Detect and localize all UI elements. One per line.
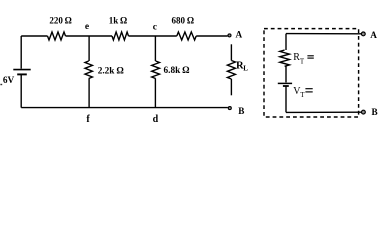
svg-text:680 Ω: 680 Ω [172,16,195,26]
svg-text:2.2k Ω: 2.2k Ω [98,67,125,77]
svg-text:T: T [300,58,305,66]
svg-text:1k Ω: 1k Ω [109,15,128,25]
svg-text:A: A [370,30,377,40]
svg-text:A: A [235,30,242,40]
svg-text:6.8k Ω: 6.8k Ω [164,66,191,76]
svg-text:220 Ω: 220 Ω [49,15,72,25]
svg-text:L: L [243,65,248,73]
svg-text:6V: 6V [3,76,15,86]
svg-text:T: T [300,91,305,99]
svg-text:c: c [153,22,157,32]
svg-text:B: B [238,106,244,116]
svg-text:B: B [372,107,378,117]
svg-text:e: e [85,22,89,32]
svg-text:d: d [153,114,159,125]
